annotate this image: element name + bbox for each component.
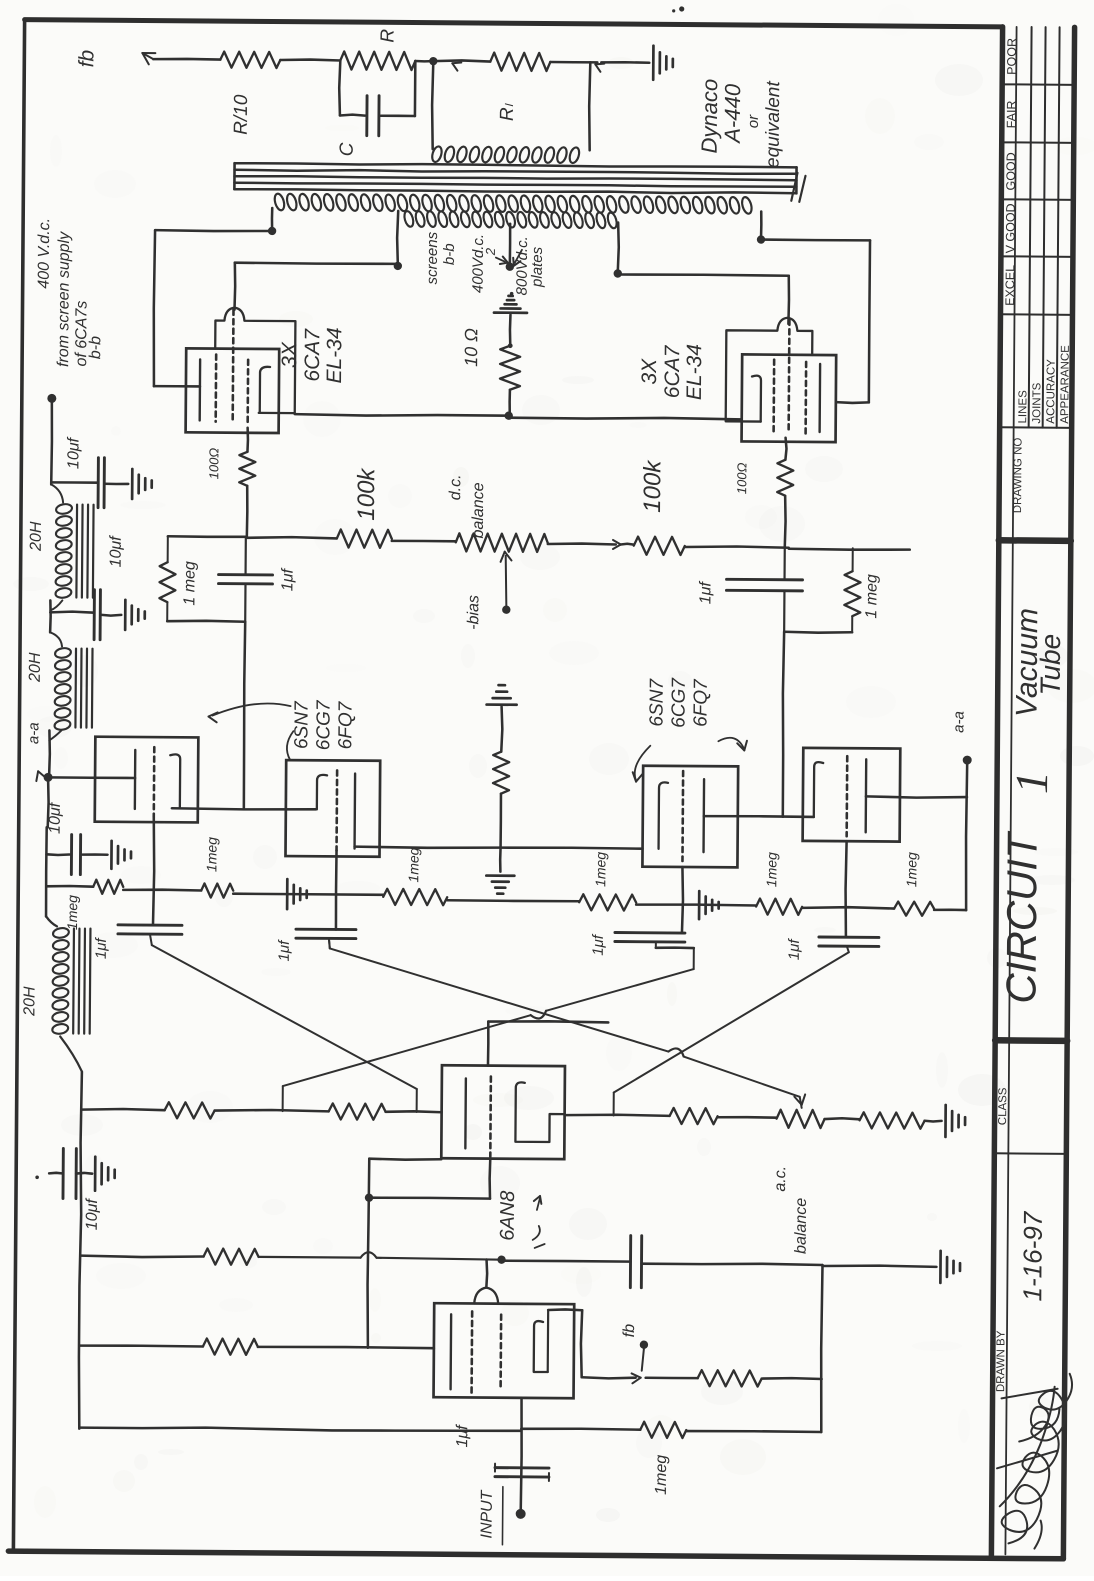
svg-text:JOINTS: JOINTS bbox=[1031, 382, 1043, 423]
svg-text:-bias: -bias bbox=[465, 595, 482, 630]
svg-text:DRAWN BY: DRAWN BY bbox=[995, 1330, 1007, 1392]
svg-text:6FQ7: 6FQ7 bbox=[690, 678, 711, 727]
svg-text:6CA7: 6CA7 bbox=[301, 328, 324, 382]
svg-text:d.c.: d.c. bbox=[447, 474, 464, 500]
svg-text:EXCEL: EXCEL bbox=[1003, 265, 1017, 306]
svg-text:6CA7: 6CA7 bbox=[661, 344, 684, 398]
svg-text:V GOOD: V GOOD bbox=[1003, 203, 1017, 253]
svg-text:1μf: 1μf bbox=[786, 938, 803, 961]
svg-text:fb: fb bbox=[75, 49, 98, 67]
svg-text:6CG7: 6CG7 bbox=[313, 699, 334, 750]
svg-text:b-b: b-b bbox=[87, 336, 104, 359]
svg-text:10μf: 10μf bbox=[108, 535, 125, 568]
svg-text:CLASS: CLASS bbox=[997, 1087, 1009, 1125]
svg-text:C: C bbox=[337, 142, 358, 156]
svg-text:POOR: POOR bbox=[1005, 38, 1019, 75]
svg-text:100k: 100k bbox=[353, 467, 380, 521]
svg-text:DRAWING NO: DRAWING NO bbox=[1012, 438, 1025, 514]
svg-text:EL-34: EL-34 bbox=[323, 327, 346, 383]
svg-text:a-a: a-a bbox=[25, 722, 42, 744]
svg-text:3X: 3X bbox=[278, 341, 301, 368]
svg-text:1μf: 1μf bbox=[590, 933, 607, 956]
svg-text:APPEARANCE: APPEARANCE bbox=[1059, 345, 1072, 424]
svg-text:20H: 20H bbox=[21, 986, 38, 1017]
svg-text:fb: fb bbox=[621, 1324, 638, 1338]
svg-text:balance: balance bbox=[470, 482, 487, 538]
svg-text:FAIR: FAIR bbox=[1004, 100, 1018, 128]
svg-text:screens: screens bbox=[424, 231, 441, 284]
svg-text:400 V.d.c.: 400 V.d.c. bbox=[36, 218, 54, 289]
svg-text:balance: balance bbox=[793, 1198, 810, 1254]
svg-text:6SN7: 6SN7 bbox=[646, 678, 667, 727]
svg-text:Tube: Tube bbox=[1035, 634, 1066, 696]
svg-text:a.c.: a.c. bbox=[772, 1166, 789, 1192]
svg-text:6CG7: 6CG7 bbox=[668, 677, 689, 728]
svg-text:EL-34: EL-34 bbox=[683, 344, 706, 400]
svg-text:Rₗ: Rₗ bbox=[497, 102, 518, 121]
svg-text:1μf: 1μf bbox=[279, 567, 296, 591]
svg-text:10 Ω: 10 Ω bbox=[461, 328, 481, 367]
svg-text:1 meg: 1 meg bbox=[181, 561, 198, 606]
svg-text:R/10: R/10 bbox=[231, 94, 252, 135]
svg-text:20H: 20H bbox=[27, 652, 44, 683]
svg-text:1meg: 1meg bbox=[903, 852, 919, 887]
svg-text:a-a: a-a bbox=[950, 711, 967, 733]
svg-text:1meg: 1meg bbox=[203, 837, 219, 872]
svg-text:GOOD: GOOD bbox=[1004, 152, 1018, 190]
svg-text:from screen supply: from screen supply bbox=[55, 231, 73, 367]
svg-text:or: or bbox=[745, 114, 762, 128]
svg-text:10μf: 10μf bbox=[47, 801, 64, 834]
svg-text:R: R bbox=[377, 29, 398, 43]
svg-text:6AN8: 6AN8 bbox=[497, 1191, 519, 1241]
svg-text:plates: plates bbox=[529, 246, 546, 288]
svg-text:CIRCUIT: CIRCUIT bbox=[997, 830, 1045, 1004]
svg-text:6SN7: 6SN7 bbox=[291, 700, 312, 749]
svg-text:1meg: 1meg bbox=[763, 852, 779, 887]
svg-text:3X: 3X bbox=[638, 358, 661, 385]
svg-text:Dynaco: Dynaco bbox=[697, 79, 723, 154]
svg-text:equivalent: equivalent bbox=[763, 81, 785, 168]
svg-text:100k: 100k bbox=[639, 459, 666, 513]
svg-text:b-b: b-b bbox=[441, 243, 458, 265]
svg-text:1μf: 1μf bbox=[276, 939, 293, 962]
svg-text:1-16-97: 1-16-97 bbox=[1017, 1210, 1048, 1301]
svg-text:1 meg: 1 meg bbox=[863, 574, 880, 619]
svg-text:A-440: A-440 bbox=[720, 83, 745, 145]
svg-text:2: 2 bbox=[483, 247, 498, 256]
svg-text:ACCURACY: ACCURACY bbox=[1045, 359, 1057, 424]
svg-text:100Ω: 100Ω bbox=[734, 462, 749, 494]
svg-text:1meg: 1meg bbox=[405, 847, 421, 882]
svg-text:20H: 20H bbox=[28, 521, 45, 552]
svg-text:1meg: 1meg bbox=[64, 895, 80, 930]
svg-text:1meg: 1meg bbox=[592, 852, 608, 887]
svg-text:LINES: LINES bbox=[1017, 390, 1029, 424]
svg-text:6FQ7: 6FQ7 bbox=[335, 700, 356, 749]
svg-text:1: 1 bbox=[1006, 771, 1057, 794]
svg-text:1meg: 1meg bbox=[653, 1455, 670, 1495]
svg-text:1μf: 1μf bbox=[93, 936, 110, 959]
svg-text:1μf: 1μf bbox=[697, 580, 714, 604]
svg-text:100Ω: 100Ω bbox=[206, 448, 221, 480]
svg-text:INPUT: INPUT bbox=[478, 1489, 495, 1538]
svg-text:10μf: 10μf bbox=[84, 1198, 101, 1231]
svg-text:1μf: 1μf bbox=[454, 1424, 471, 1448]
svg-text:10μf: 10μf bbox=[65, 436, 82, 469]
svg-text:400Vd.c.: 400Vd.c. bbox=[470, 234, 487, 293]
